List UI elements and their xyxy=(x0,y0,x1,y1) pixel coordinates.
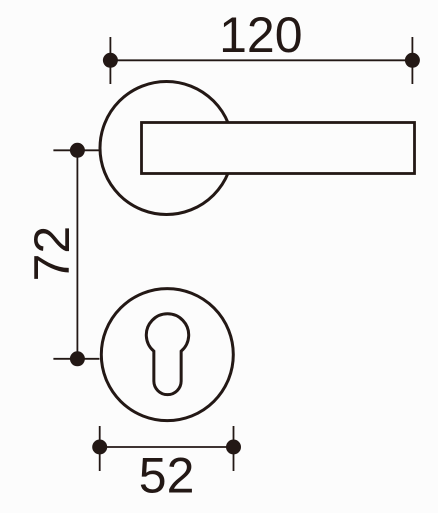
dimension 120: left dot xyxy=(103,53,118,68)
lever handle bar xyxy=(142,123,415,174)
rose circle (lever escutcheon) xyxy=(100,82,233,215)
dimension 120: right dot xyxy=(405,53,420,68)
dimension 120: line xyxy=(110,59,412,61)
svg-text:120: 120 xyxy=(219,7,302,63)
dimension 72: top dot xyxy=(70,143,85,158)
euro cylinder keyhole xyxy=(146,314,188,395)
dimension 72: bottom dot xyxy=(70,351,85,366)
dimension 72: top tick xyxy=(53,149,99,151)
svg-text:52: 52 xyxy=(139,448,195,504)
svg-text:72: 72 xyxy=(24,226,80,282)
dimension 52: left tick xyxy=(99,426,101,471)
dimension 72: line xyxy=(76,150,78,358)
dimension 72: bottom tick xyxy=(53,358,99,360)
escutcheon circle (cylinder rose) xyxy=(101,289,233,421)
dimension 52: right dot xyxy=(226,440,241,455)
dimension 52: left dot xyxy=(92,440,107,455)
dimension 52: line xyxy=(100,446,234,448)
dimension 120: left tick xyxy=(109,37,111,84)
dimension 52: right tick xyxy=(233,426,235,471)
dimension 120: right tick xyxy=(411,37,413,84)
